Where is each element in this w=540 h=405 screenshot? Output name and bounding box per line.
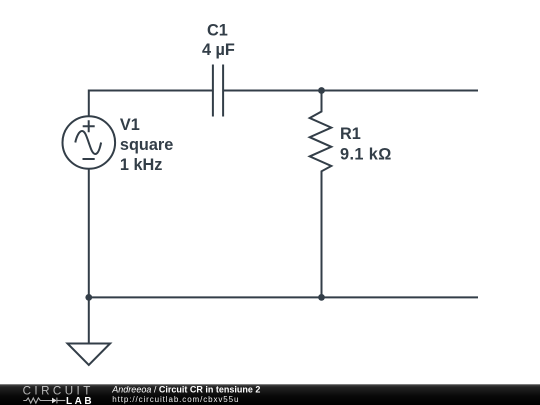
svg-text:R1: R1 — [340, 125, 361, 143]
wire ground lead — [88, 297, 90, 343]
label R1 — [340, 125, 361, 143]
footer url — [112, 395, 239, 404]
CircuitLab logo — [23, 385, 94, 405]
node bottom-left junction — [85, 294, 92, 301]
wire top-right segment — [223, 90, 478, 92]
svg-text:9.1 kΩ: 9.1 kΩ — [340, 146, 392, 164]
footer title — [111, 384, 260, 394]
node bottom-right junction — [318, 294, 325, 301]
value 9.1 kΩ — [340, 146, 392, 164]
resistor R1 — [310, 90, 332, 298]
label V1 — [120, 116, 140, 134]
label C1 — [207, 22, 228, 40]
svg-text:V1: V1 — [120, 116, 140, 134]
wire top-left segment — [89, 90, 213, 92]
ground — [68, 344, 111, 366]
svg-text:4 µF: 4 µF — [202, 41, 235, 59]
wire V1 bottom lead — [88, 169, 90, 298]
wire bottom segment — [89, 296, 478, 298]
value 1 kHz — [120, 156, 163, 174]
wire V1 top lead — [88, 90, 90, 117]
svg-text:C1: C1 — [207, 22, 228, 40]
svg-text:http://circuitlab.com/cbxv55u: http://circuitlab.com/cbxv55u — [112, 395, 239, 404]
footer bar — [0, 384, 540, 405]
capacitor C1 — [213, 65, 223, 117]
svg-text:1 kHz: 1 kHz — [120, 156, 163, 174]
value 4 µF — [202, 41, 235, 59]
node top junction — [318, 87, 325, 94]
svg-text:Andreeoa / Circuit CR in tensi: Andreeoa / Circuit CR in tensiune 2 — [111, 384, 260, 394]
value square — [120, 136, 173, 154]
svg-text:square: square — [120, 136, 173, 154]
svg-text:LAB: LAB — [66, 396, 94, 405]
voltage source V1 — [63, 116, 116, 169]
